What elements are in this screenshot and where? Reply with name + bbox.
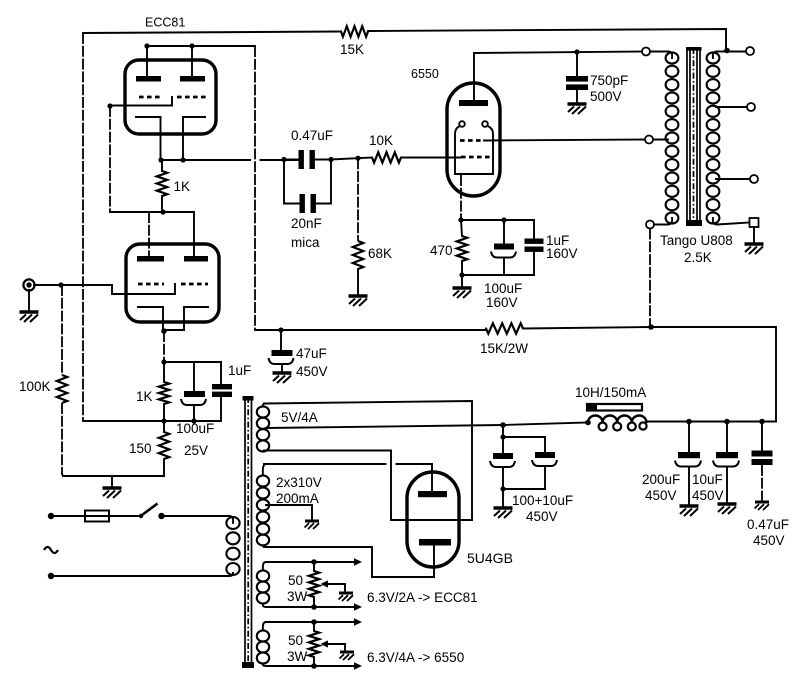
resistor R8 470	[457, 236, 467, 261]
ground 10uF	[718, 504, 737, 514]
OPT secondary top terminal circle	[746, 47, 754, 55]
wire ground rail	[63, 475, 164, 477]
ground input stage	[103, 488, 122, 498]
resistor R5 15K feedback	[341, 26, 368, 36]
V1b grid dashes right	[181, 283, 208, 286]
fuse F1	[85, 511, 109, 522]
svg-text:450V: 450V	[692, 488, 724, 503]
junction dot pot2 top	[311, 619, 317, 625]
wire 100K bottom corner	[62, 474, 63, 476]
svg-text:200uF: 200uF	[642, 472, 680, 487]
V1b plate lead right	[193, 212, 195, 256]
junction dot feedback takeoff	[724, 48, 730, 54]
junction dot left of C5	[281, 157, 286, 162]
ground stub	[111, 476, 113, 487]
V1a grid dashes left	[139, 96, 163, 99]
V2 screen grid dashes	[460, 139, 484, 142]
junction dot 100+10uF tap	[500, 422, 506, 428]
wire 5V top route	[264, 401, 472, 520]
ground 6550 cathode	[461, 275, 463, 287]
svg-text:200mA: 200mA	[276, 491, 319, 506]
junction dot rail C3	[191, 418, 196, 423]
junction dot plate left	[144, 43, 149, 48]
label AC	[44, 547, 58, 553]
junction dot plate right	[189, 43, 194, 48]
svg-text:15K/2W: 15K/2W	[480, 341, 528, 356]
R6 leads	[357, 158, 359, 241]
svg-text:50: 50	[288, 573, 303, 588]
capacitor C5 0.47uF	[299, 150, 304, 169]
tube V1a envelope (upper ECC81 half)	[125, 60, 216, 134]
V3 filament crossing wire	[391, 519, 472, 521]
C8 leads	[533, 220, 535, 275]
wire B+ rail right	[523, 327, 776, 421]
ground pot2 wiper	[340, 652, 355, 660]
wire cathode network bottom	[462, 274, 534, 276]
ground 750pF	[568, 104, 587, 114]
svg-text:100uF: 100uF	[484, 281, 522, 296]
OPT secondary bottom lead	[713, 218, 749, 225]
OPT primary bottom terminal circle	[646, 221, 654, 229]
svg-text:47uF: 47uF	[296, 346, 327, 361]
heater1 bottom lead with arrow	[263, 604, 354, 608]
capacitor C13 0.47uF 450V	[761, 422, 763, 451]
capacitor C9 750pF lead	[576, 52, 578, 76]
T1 core	[245, 397, 252, 667]
V1a plate lead left	[146, 46, 148, 76]
V1a cathode left	[136, 117, 161, 160]
capacitor C12 10uF 450V	[726, 422, 728, 453]
T1 310V bottom lead bend	[263, 546, 266, 548]
junction dot 68K tap	[355, 156, 360, 161]
ground 0.47uF	[755, 502, 770, 510]
V2 cathode lead	[460, 175, 462, 220]
wire to fuse	[54, 515, 85, 517]
junction dot 47uF tap	[278, 327, 283, 332]
junction dot 750pF	[574, 49, 579, 54]
ground 200uF	[680, 506, 699, 516]
resistor R4 150	[159, 432, 169, 459]
ground 68K	[349, 296, 368, 306]
wire switch to primary	[164, 515, 229, 517]
OPT core end blobs	[686, 47, 702, 51]
wire feedback frame left	[83, 33, 84, 421]
junction dot choke left	[585, 420, 591, 426]
ground pot1 wiper	[339, 593, 354, 601]
svg-text:68K: 68K	[368, 246, 392, 261]
V3 top plate bar	[418, 491, 447, 497]
svg-text:25V: 25V	[184, 443, 208, 458]
V3 top plate lead	[431, 464, 433, 491]
ground centre tap	[305, 521, 320, 529]
resistor R1 100K	[57, 375, 67, 403]
svg-text:500V: 500V	[590, 89, 622, 104]
T1 primary winding	[226, 517, 239, 575]
OPT secondary winding T2S	[707, 52, 720, 223]
svg-text:5U4GB: 5U4GB	[467, 550, 513, 566]
node SRPP mid wire	[109, 106, 111, 212]
V3 bottom plate bar	[419, 539, 451, 546]
resistor R6 68K	[353, 241, 363, 269]
heater2 top lead with arrow	[263, 622, 354, 631]
ground jack	[20, 312, 39, 322]
OPT primary top bend	[668, 52, 672, 59]
switch S1 lever	[140, 504, 158, 517]
svg-text:0.47uF: 0.47uF	[747, 517, 789, 532]
V1b cathode join wire	[163, 329, 184, 331]
svg-text:6550: 6550	[411, 67, 439, 81]
svg-text:5V/4A: 5V/4A	[281, 410, 318, 425]
OPT secondary top lead	[713, 52, 746, 59]
svg-text:160V: 160V	[486, 295, 518, 310]
svg-text:450V: 450V	[753, 533, 785, 548]
tube V1b envelope (lower ECC81 half)	[126, 244, 219, 322]
wire B+ from rectifier	[266, 423, 588, 429]
potentiometer P2 50 3W	[309, 631, 319, 657]
OPT core	[687, 48, 700, 225]
svg-text:50: 50	[288, 633, 303, 648]
svg-text:0.47uF: 0.47uF	[291, 128, 333, 143]
T1 core end blobs	[243, 396, 254, 401]
resistor R2 1K SRPP	[157, 171, 167, 196]
svg-text:1K: 1K	[136, 389, 153, 404]
svg-text:1uF: 1uF	[228, 363, 251, 378]
C9 bottom lead	[576, 90, 578, 103]
junction dot input	[58, 282, 63, 287]
resistor R7 10K	[372, 152, 401, 162]
svg-text:10K: 10K	[369, 133, 393, 148]
V1a plate supply wire	[147, 45, 255, 47]
OPT secondary tap3 terminal circle	[750, 175, 758, 183]
OPT secondary tap3 lead	[716, 178, 750, 180]
svg-text:3W: 3W	[287, 589, 308, 604]
svg-text:150: 150	[129, 441, 152, 456]
wire fuse to switch	[109, 515, 141, 517]
V1b plate bar right	[184, 256, 208, 262]
junction dot cathode	[458, 217, 463, 222]
wire cathode net top	[164, 361, 221, 363]
C4 leads	[220, 362, 222, 421]
V1a plate lead right	[191, 46, 193, 76]
svg-text:6.3V/4A -> 6550: 6.3V/4A -> 6550	[367, 650, 464, 665]
ground 47uF	[273, 373, 292, 383]
secondary ground stem	[753, 227, 755, 243]
wire B+ rail left	[255, 329, 486, 331]
junction dot cathode net top	[161, 359, 166, 364]
T1 primary lead bends	[228, 516, 233, 576]
V2 plate bar	[459, 100, 488, 106]
V2 beam plate circles	[459, 121, 465, 127]
V1b cathode right	[184, 307, 208, 330]
junction dot right of C5	[328, 157, 333, 162]
switch S1 contact dot	[158, 513, 164, 519]
svg-text:20nF: 20nF	[291, 216, 322, 231]
V1a cathode bus wire	[161, 159, 299, 161]
svg-text:450V: 450V	[645, 488, 677, 503]
wire 310V top lead	[264, 464, 432, 471]
input jack	[23, 279, 34, 290]
capacitor C9 750pF 500V	[566, 76, 588, 82]
R3 leads	[163, 362, 165, 421]
capacitor C10 47uF 450V	[272, 350, 293, 356]
potentiometer P1 50 3W	[309, 571, 319, 597]
choke L1 core bar	[587, 404, 642, 411]
svg-text:6.3V/2A -> ECC81: 6.3V/2A -> ECC81	[367, 590, 478, 605]
T1 310V centre tap	[266, 505, 312, 520]
capacitor C10 47uF 450V lead	[280, 330, 282, 350]
V1b grid dashes left	[138, 283, 164, 286]
wire choke to caps	[646, 422, 776, 423]
V1b grid entry step wire	[112, 284, 175, 294]
P2 wiper arrow	[327, 643, 345, 645]
V1a cathode right	[183, 117, 205, 160]
choke L1 winding	[588, 415, 646, 422]
junction dot 10uF	[724, 419, 730, 425]
wire to 10K	[331, 158, 372, 160]
R1 leads	[61, 285, 63, 375]
svg-text:10H/150mA: 10H/150mA	[575, 385, 646, 400]
ground secondary	[745, 244, 764, 254]
T1 heater winding 2	[257, 630, 269, 663]
wire plate to OPT primary top	[474, 52, 646, 54]
capacitor C3 100uF 25V	[184, 391, 205, 397]
junction dot 100uF tap	[501, 217, 506, 222]
junction dot pot1 bottom	[311, 604, 317, 610]
OPT secondary tap2 terminal circle	[747, 103, 755, 111]
svg-text:mica: mica	[291, 235, 320, 250]
svg-text:1K: 1K	[174, 179, 191, 194]
V1b plate lead left	[148, 212, 150, 256]
junction dot rail R3	[161, 418, 166, 423]
capacitor C4 1uF	[212, 384, 232, 389]
junction dot cathode right	[180, 157, 185, 162]
wire B+ drop to rail	[254, 46, 256, 330]
svg-text:470: 470	[430, 243, 453, 258]
AC terminal top	[48, 513, 54, 519]
R4 leads	[163, 421, 165, 476]
V1a grid entry step wire	[110, 97, 172, 106]
wire screen to UL tap	[484, 140, 645, 141]
OPT secondary bottom square terminal	[750, 218, 759, 227]
junction dot grid entry	[107, 103, 112, 108]
junction dot 200uF	[686, 419, 692, 425]
OPT terminal circle primary top	[642, 48, 650, 56]
svg-text:100+10uF: 100+10uF	[512, 493, 573, 508]
junction dot cathode left	[158, 157, 163, 162]
wire cathode bus to cap	[284, 159, 331, 161]
V2 control grid dashes	[461, 156, 490, 159]
ground 100+10uF	[494, 508, 513, 518]
wire cathode node	[461, 219, 534, 221]
svg-text:10uF: 10uF	[692, 472, 723, 487]
capacitor C6 20nF mica	[300, 194, 305, 213]
svg-text:750pF: 750pF	[590, 73, 628, 88]
resistor R3 1K cathode	[159, 382, 169, 404]
R2 leads	[161, 160, 163, 212]
node feedback rail	[84, 420, 221, 422]
junction dot pot2 bottom	[311, 663, 317, 669]
junction dot V1b cathode	[161, 328, 167, 334]
T1 5V/4A winding	[257, 406, 269, 451]
capacitor C8 1uF 160V	[525, 239, 544, 244]
C10 bottom lead	[281, 364, 283, 372]
T1 310V winding	[257, 475, 269, 545]
wire top feedback run	[83, 29, 726, 50]
heater2 bottom lead with arrow	[263, 664, 354, 667]
heater1 top lead with arrow	[263, 562, 354, 571]
OPT UL tap terminal circle	[645, 136, 653, 144]
AC terminal bottom	[48, 573, 54, 579]
V1b cathode left	[138, 307, 163, 330]
R8 leads	[461, 220, 462, 275]
svg-text:2x310V: 2x310V	[276, 475, 322, 490]
svg-text:2.5K: 2.5K	[684, 250, 712, 265]
wire input to grid	[34, 284, 112, 286]
T1 310V top lead bend	[263, 464, 266, 476]
svg-text:3W: 3W	[287, 649, 308, 664]
svg-text:Tango U808: Tango U808	[660, 233, 733, 248]
OPT secondary tap2 lead	[716, 106, 747, 108]
capacitor C11 200uF 450V	[688, 422, 690, 453]
V1a grid dashes right	[177, 96, 206, 99]
resistor R9 15K/2W	[486, 323, 523, 333]
svg-text:ECC81: ECC81	[145, 16, 185, 30]
V1a plate bar left	[136, 76, 161, 82]
OPT primary winding T2P	[666, 52, 679, 223]
wire circle to primary bottom	[654, 218, 672, 225]
svg-text:15K: 15K	[340, 42, 364, 57]
tube V3 5U4GB envelope	[407, 472, 459, 567]
wire AC bottom to primary	[54, 575, 228, 577]
V1a plate bar right	[180, 76, 205, 82]
P1 wiper arrow	[327, 583, 345, 585]
V3 bottom plate lead	[433, 545, 435, 577]
junction dot OPT primary feed	[648, 324, 654, 330]
T1 heater winding 1	[257, 570, 269, 603]
junction dot R2 bottom	[160, 209, 165, 214]
wire circle to primary	[650, 51, 668, 53]
capacitor C7 100uF 160V	[494, 244, 514, 250]
V1b plate bar left	[137, 256, 164, 262]
jack ground stem	[28, 290, 30, 311]
tube V2 6550 envelope	[447, 83, 500, 196]
wire UL tap to primary	[653, 139, 668, 141]
V2 inner structure	[455, 126, 493, 174]
V2 plate lead	[473, 53, 475, 100]
svg-text:450V: 450V	[296, 364, 328, 379]
wire cathode down	[163, 331, 165, 362]
svg-text:450V: 450V	[526, 509, 558, 524]
wire 5V bottom route	[264, 451, 391, 521]
wire 10K to 6550 grid	[401, 157, 461, 159]
C7 leads	[503, 220, 505, 275]
svg-text:100K: 100K	[19, 379, 51, 394]
svg-text:160V: 160V	[546, 246, 578, 261]
junction dot pot1 top	[311, 559, 317, 565]
junction dot bottom	[459, 272, 464, 277]
C3 leads	[193, 362, 195, 421]
junction dot 0.47uF	[759, 419, 765, 425]
capacitor C14 100+10uF 450V pair	[502, 425, 504, 437]
wire primary bottom to B+ rail	[649, 229, 651, 328]
wire 310V bottom route	[264, 547, 434, 577]
T1 5V leads	[263, 404, 266, 452]
C6 parallel loop wires	[284, 160, 331, 204]
